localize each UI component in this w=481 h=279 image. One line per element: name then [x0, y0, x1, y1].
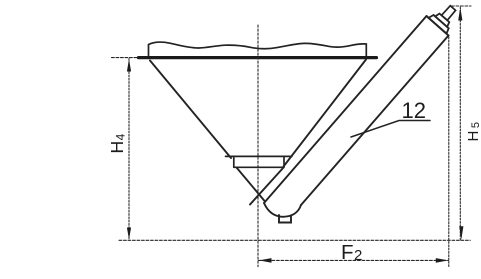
cylinder 12 right side	[301, 36, 449, 206]
top extension line (valve tip)	[452, 5, 472, 7]
svg-text:12: 12	[402, 98, 426, 123]
F2 right arrow	[436, 258, 449, 263]
funnel right slant	[284, 60, 367, 167]
lower cone left line	[237, 168, 266, 202]
dimension F2 line	[259, 259, 449, 261]
cylinder top face	[427, 16, 449, 36]
F2 left arrow	[259, 258, 272, 263]
liquid surface wavy line	[149, 42, 367, 56]
valve shoulder band	[429, 15, 449, 34]
svg-text:H4: H4	[107, 133, 128, 153]
dimension H5 line	[459, 7, 461, 240]
H5 top arrow	[458, 7, 462, 21]
extension line from cylinder corner	[448, 37, 450, 267]
valve neck	[442, 6, 456, 21]
cylinder bottom arc	[264, 203, 301, 217]
cylinder 12 left side	[264, 16, 427, 203]
funnel left slant	[150, 61, 231, 159]
svg-text:H5: H5	[465, 122, 481, 141]
H4 bottom arrow	[127, 228, 131, 240]
valve cap band	[435, 14, 449, 27]
funnel top rim (thick line)	[139, 56, 377, 59]
centerline (dash-dot)	[257, 25, 259, 267]
dimension H4 line	[128, 59, 130, 241]
cylinder bottom nub	[279, 215, 291, 223]
H4 top arrow	[127, 59, 131, 72]
H5 bottom arrow	[459, 226, 463, 240]
leader line for 12	[351, 121, 430, 138]
svg-text:F2: F2	[341, 241, 362, 264]
rim extension line (dashed, to H4)	[112, 57, 139, 59]
outlet flange line	[226, 155, 292, 157]
lower cone right line	[250, 168, 284, 205]
outlet collar box	[234, 157, 284, 167]
baseline (bottom extension)	[119, 239, 470, 241]
